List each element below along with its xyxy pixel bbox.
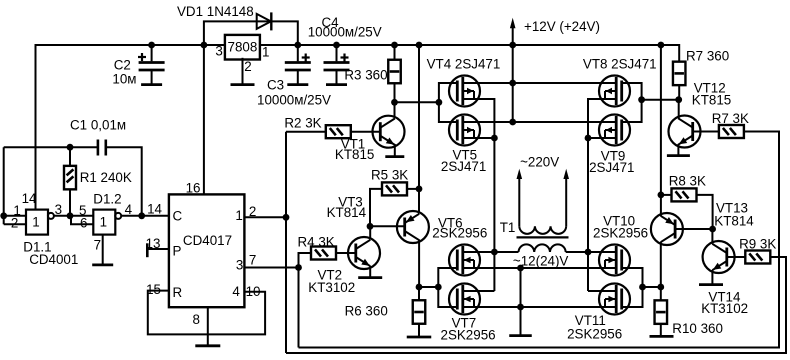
svg-text:8: 8 [193, 312, 200, 327]
node ground bus D [517, 304, 524, 311]
svg-text:10: 10 [246, 284, 261, 299]
svg-text:10000м/25V: 10000м/25V [257, 93, 331, 108]
wire P-source bus row A [463, 82, 612, 84]
wire VT6 drain to column [481, 251, 495, 253]
node D1.1 inputs [0, 212, 7, 219]
wire VT12 emitter to ground [677, 144, 679, 155]
svg-text:C3: C3 [267, 78, 284, 93]
ground CD4017 pin8 [195, 344, 220, 347]
svg-text:T1: T1 [500, 220, 516, 235]
wire VT12 collector [678, 100, 680, 119]
svg-text:R1 240K: R1 240K [80, 170, 132, 185]
transistor VT1 KT815 [335, 116, 405, 162]
resistor R9 3K [739, 237, 776, 264]
svg-text:R3 360: R3 360 [344, 68, 387, 83]
wire R1 bottom lead [69, 189, 71, 216]
gate D1.2 CD4001 [79, 192, 133, 253]
svg-text:D1.2: D1.2 [93, 192, 121, 207]
node P-gate bracket right [638, 96, 645, 103]
wire R7 360 bottom lead [678, 85, 680, 100]
svg-text:VD1 1N4148: VD1 1N4148 [177, 4, 254, 19]
terminator CD4017 pin13 [146, 243, 149, 257]
wire D1.1 output to D1.2 inputs [53, 215, 93, 217]
svg-text:R7 3K: R7 3K [712, 111, 749, 126]
wire C1 right to D1.2 output node [106, 147, 142, 216]
resistor R7 3K [712, 111, 749, 138]
wire VT12 base to R7 3K [693, 131, 719, 133]
mosfet VT5 2SJ471 [441, 115, 486, 175]
wire R6 bottom to ground [418, 323, 420, 336]
capacitor C4 [308, 15, 382, 85]
node R7/VT12 collector [675, 96, 682, 103]
diode VD1 [177, 4, 271, 30]
node P-source bus A [509, 80, 516, 87]
wire D1.2 output to CD4017 C [121, 215, 169, 217]
wire R8 right lead to node Y [697, 195, 713, 229]
wire CD4017 pin15 reset loop [148, 291, 265, 335]
resistor R3 360 [344, 60, 400, 84]
svg-text:KT814: KT814 [714, 214, 754, 229]
svg-text:C2: C2 [114, 58, 131, 73]
svg-text:R10 360: R10 360 [672, 321, 723, 336]
regulator DA1 7808 [215, 35, 269, 74]
wire CD4017 out3 pin7 lead [244, 267, 298, 269]
wire D1.1 input pin2 [4, 223, 26, 225]
node rail-C4 [333, 42, 340, 49]
wire CD4017 pin16 supply drop [203, 45, 205, 194]
transistor VT2 KT3102 [308, 237, 380, 295]
svg-text:VT4 2SJ471: VT4 2SJ471 [427, 57, 501, 72]
wire CD4017 pin8 ground lead [207, 307, 209, 345]
wire N-gate bracket left (VT6/VT7 gates) [438, 268, 458, 307]
node R8/VT13 emitter [658, 192, 665, 199]
resistor R8 3K [669, 174, 706, 202]
node rail-VT3 emitter [416, 42, 423, 49]
wire VT14 collector [711, 229, 713, 244]
svg-text:10м: 10м [112, 72, 136, 87]
svg-text:R2 3K: R2 3K [284, 116, 321, 131]
resistor R5 3K [371, 168, 408, 196]
wire VT7 drain to column [481, 290, 495, 292]
capacitor C2 [112, 45, 164, 87]
node rail-VD1 right/C3 [294, 42, 301, 49]
svg-text:7808: 7808 [228, 40, 258, 55]
wire ground bus drop [520, 268, 522, 335]
node rail-VD1 left [201, 42, 208, 49]
mosfet VT11 2SK2956 [567, 284, 630, 342]
wire right bridge output column [588, 99, 599, 291]
wire R3 bottom lead / VT1 collector node [394, 83, 396, 118]
node A R1/C1 [67, 144, 74, 151]
wire bottom rail out3 phase [299, 132, 780, 348]
svg-text:7: 7 [249, 253, 256, 268]
svg-text:1: 1 [100, 214, 107, 229]
svg-text:4: 4 [125, 202, 133, 217]
wire R8 left lead [661, 194, 671, 196]
wire P-gate bracket left (VT4/VT5 gates) [439, 83, 458, 122]
ground VT12 emitter [667, 154, 690, 157]
wire oscillator node A horizontal [4, 146, 98, 148]
wire out3 up to R4 [299, 253, 312, 268]
output ~220V arrows [517, 155, 570, 227]
node Y VT14 collector [709, 226, 716, 233]
node R6/VT3 collector [416, 284, 423, 291]
transformer T1 [500, 220, 569, 269]
svg-text:2SJ471: 2SJ471 [441, 159, 486, 174]
svg-text:10000м/25V: 10000м/25V [308, 25, 382, 40]
svg-text:KT815: KT815 [692, 93, 731, 108]
node N-gate bracket right [639, 284, 646, 291]
svg-text:2SK2956: 2SK2956 [567, 327, 622, 342]
wire node to R6 top [418, 287, 420, 301]
wire VT9 drain to column [588, 137, 599, 139]
wire oscillator node A vertical to D1.1 inputs [3, 147, 5, 224]
node R3/VT1 collector [391, 99, 398, 106]
svg-text:R: R [173, 285, 183, 300]
wire VT1 emitter to ground [394, 144, 396, 156]
svg-text:KT3102: KT3102 [701, 301, 748, 316]
svg-text:2: 2 [11, 216, 18, 231]
wire VT1 collector node to P-gate bracket [395, 101, 439, 103]
svg-text:2: 2 [249, 204, 256, 219]
svg-text:1: 1 [262, 45, 269, 60]
node VT9 drain [585, 135, 592, 142]
wire R4 to VT2 base [336, 252, 357, 254]
resistor R6 360 [345, 300, 426, 324]
wire R5 left lead to node X [370, 189, 383, 226]
svg-text:R4 3K: R4 3K [298, 235, 335, 250]
ground R10 [650, 335, 674, 338]
mosfet VT8 2SJ471 [583, 57, 657, 107]
mosfet VT4 2SJ471 [427, 57, 501, 107]
ground VT1 emitter [385, 155, 404, 158]
wire VT11 drain to column [588, 290, 599, 292]
resistor R7 360 [673, 49, 729, 86]
svg-text:14: 14 [147, 202, 162, 217]
svg-text:P: P [173, 244, 182, 259]
svg-text:3: 3 [215, 44, 222, 59]
mosfet VT6 2SK2956 [432, 216, 487, 276]
svg-text:R5 3K: R5 3K [371, 168, 408, 183]
wire D1.2 input pin6 jog [71, 216, 93, 224]
node T1 left [491, 249, 498, 256]
svg-text:2: 2 [244, 59, 251, 74]
node P-gate bracket left [436, 99, 443, 106]
wire out1 to R2 [286, 131, 326, 133]
node C D1.2 out/C1 [138, 212, 145, 219]
wire CD4017 pin13 lead [147, 248, 169, 250]
wire node X to VT3 base [370, 225, 405, 227]
transistor VT3 KT814 [327, 195, 429, 244]
wire T1 primary right lead [566, 251, 588, 253]
svg-text:2SK2956: 2SK2956 [432, 226, 487, 241]
wire node to N-gate bracket left [419, 286, 438, 288]
wire 7808 pin2 ground lead [242, 58, 244, 84]
wire VT2 emitter to ground [369, 266, 371, 277]
wire D1.1 input pin1 [4, 215, 26, 217]
svg-text:1: 1 [235, 208, 242, 223]
svg-text:KT815: KT815 [335, 147, 374, 162]
wire VT14 base to R9 [727, 256, 745, 258]
svg-text:C1 0,01м: C1 0,01м [70, 118, 126, 133]
wire P-source bus row B [463, 121, 612, 123]
wire left bridge output column [481, 99, 495, 291]
node rail-+12V arrow [509, 42, 516, 49]
node T1 right [585, 249, 592, 256]
wire N-gate bracket right (VT10/VT11 gates) [621, 268, 642, 307]
ground R6 [407, 336, 432, 339]
wire R2 to VT1 base [351, 131, 381, 133]
transistor VT13 KT814 [651, 201, 754, 246]
IC DD1 CD4017 [146, 181, 261, 328]
wire R1 top lead [69, 147, 71, 166]
ground D1.2 pin7 [92, 263, 113, 266]
svg-text:14: 14 [22, 191, 37, 206]
svg-text:3: 3 [55, 202, 62, 217]
node rail-R3 [391, 42, 398, 49]
wire VT3 emitter column from rail [418, 45, 420, 214]
node R10/VT13 collector [657, 284, 664, 291]
svg-text:16: 16 [186, 181, 201, 196]
wire +12V drop to source buses [512, 45, 514, 122]
transistor VT14 KT3102 [701, 241, 748, 316]
node R5/VT3 emitter [416, 186, 423, 193]
gate D1.1 CD4001 [11, 191, 78, 267]
power +12V arrow [510, 18, 600, 45]
node N-gate bracket left [435, 284, 442, 291]
wire out3 vertical [298, 268, 300, 348]
node X VT2 collector [367, 223, 374, 230]
wire VT14 emitter to ground [711, 270, 713, 284]
svg-text:4: 4 [232, 284, 240, 299]
wire out1 vertical [285, 132, 287, 353]
resistor R1 240K [64, 166, 132, 190]
node B D1.1 out/R1 [67, 212, 74, 219]
node out1 [283, 214, 290, 221]
svg-text:CD4017: CD4017 [183, 233, 232, 248]
capacitor C1 [70, 118, 126, 156]
wire VD1 bypass loop [204, 21, 298, 45]
svg-text:2SK2956: 2SK2956 [593, 226, 648, 241]
svg-text:6: 6 [80, 216, 87, 231]
resistor R10 360 [655, 300, 723, 336]
ground 7808 pin2 [231, 83, 255, 86]
wire +12V supply rail [36, 45, 680, 62]
svg-text:~220V: ~220V [520, 155, 559, 170]
wire VT3 collector to node [418, 240, 420, 288]
wire right P-gate node to R7/VT12 [642, 99, 679, 101]
wire VT13 emitter column from rail [660, 45, 662, 216]
wire VT5 drain to column [481, 137, 495, 139]
resistor R2 3K [284, 116, 350, 139]
wire D1.2 pin7 ground lead [102, 235, 104, 265]
capacitor C3 [257, 45, 331, 108]
svg-text:2SJ471: 2SJ471 [589, 160, 634, 175]
svg-text:+12V (+24V): +12V (+24V) [524, 19, 600, 34]
node rail-VT13 emitter [658, 42, 665, 49]
wire CD4017 out1 pin2 lead [244, 216, 286, 218]
node VT5 drain [491, 135, 498, 142]
svg-text:1: 1 [32, 214, 39, 229]
ground VT2 emitter [358, 276, 382, 279]
svg-text:R7 360: R7 360 [686, 49, 729, 64]
mosfet VT9 2SJ471 [589, 115, 634, 176]
ground N-source bus [509, 334, 532, 337]
svg-text:KT3102: KT3102 [308, 280, 355, 295]
node ground bus C [517, 265, 524, 272]
wire P-gate bracket right (VT8/VT9 gates) [621, 83, 641, 122]
svg-text:VT8 2SJ471: VT8 2SJ471 [583, 57, 657, 72]
svg-text:R8 3K: R8 3K [669, 174, 706, 189]
wire R5 right lead [407, 188, 420, 190]
resistor R4 3K [298, 235, 337, 260]
ground VT14 emitter [699, 283, 723, 286]
svg-text:KT814: KT814 [327, 205, 367, 220]
svg-text:7: 7 [94, 238, 101, 253]
wire node to R10 top [660, 287, 662, 301]
wire VT13 collector to node [660, 242, 662, 287]
wire N-source ground bus row C [463, 267, 616, 269]
svg-text:C: C [173, 209, 183, 224]
wire R10 bottom to ground [660, 324, 662, 336]
svg-text:15: 15 [146, 282, 161, 297]
wire VT2 collector [369, 227, 371, 240]
wire N-source ground bus row D [463, 306, 616, 308]
transistor VT12 KT815 [669, 81, 732, 148]
wire R3 top lead [394, 45, 396, 60]
mosfet VT10 2SK2956 [593, 214, 648, 276]
wire node to N-gate bracket right [643, 286, 661, 288]
wire T1 primary left lead [494, 251, 518, 253]
svg-text:3: 3 [236, 258, 243, 273]
node P-source bus B [509, 119, 516, 126]
wire CD4001 pin14 supply drop [35, 44, 37, 210]
wire bottom rail out1 phase [286, 257, 786, 353]
wire VT10 drain to column [588, 251, 599, 253]
svg-text:R9 3K: R9 3K [739, 237, 776, 252]
node out3 [295, 264, 302, 271]
svg-text:R6 360: R6 360 [345, 304, 388, 319]
node rail-C2 [148, 42, 155, 49]
svg-text:2SK2956: 2SK2956 [441, 328, 496, 343]
wire VT13 base to node Y [675, 228, 713, 230]
mosfet VT7 2SK2956 [441, 284, 496, 343]
svg-text:CD4001: CD4001 [29, 252, 78, 267]
